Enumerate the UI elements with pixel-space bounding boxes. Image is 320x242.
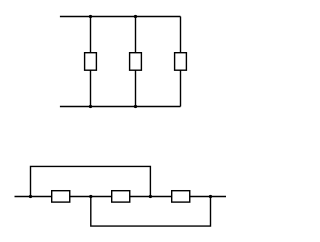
resistor R5 [112,191,130,202]
node C upper bypass right [149,195,152,198]
node top bus / branch 1 [89,15,92,18]
resistor R1 [85,53,97,70]
wire bottom bus (parallel circuit) [60,106,181,108]
wire branch 1 vertical [90,17,92,107]
node bottom bus / branch 2 [134,105,137,108]
node D lower bypass right [209,195,212,198]
node B lower bypass left [89,195,92,198]
resistor R4 [52,191,70,202]
wire branch 3 vertical [180,17,182,107]
resistor R3 [175,53,187,70]
node A upper bypass left [29,195,32,198]
node top bus / branch 2 [134,15,137,18]
resistor R2 [130,53,142,70]
resistor R6 [172,191,190,202]
wire upper bypass [31,166,151,196]
wire branch 2 vertical [135,17,137,107]
wire lower bypass [91,197,211,227]
wire main horizontal (series-parallel circuit) [15,196,227,198]
node bottom bus / branch 1 [89,105,92,108]
wire top bus (parallel circuit) [60,16,181,18]
